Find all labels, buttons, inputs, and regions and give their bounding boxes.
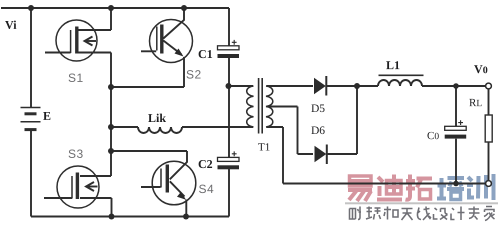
junction battery top rail (28, 5, 34, 11)
inductor Lik coil (138, 127, 182, 133)
wire Lik to transformer primary bottom (182, 126, 253, 128)
L1 coil (378, 80, 422, 86)
S3 channel bar (76, 173, 79, 200)
wire RL to return terminal (488, 142, 490, 180)
D5 cathode bar (325, 76, 327, 96)
transformer primary winding (247, 86, 254, 127)
bottom rail (31, 216, 229, 218)
junction Lik on mid leg (108, 124, 114, 130)
S4 gate bar (160, 169, 162, 188)
junction C1-C2 midpoint to primary (226, 83, 232, 89)
wire top rail to C1 (228, 8, 230, 46)
D6 branch vertical (356, 86, 358, 154)
S1 circle (56, 20, 97, 61)
junction C0 top (453, 83, 459, 89)
wire V0 terminal to RL (488, 89, 490, 115)
char 培 (437, 178, 464, 200)
C2 electrolytic plates (218, 151, 240, 169)
S3 gate lead (44, 197, 72, 199)
char 易 (348, 176, 372, 201)
svg-text:S1: S1 (68, 71, 84, 85)
junction S2 emitter on mid leg (108, 84, 114, 90)
S2 emitter vertical (183, 57, 185, 87)
S2 gate bar (156, 27, 158, 51)
S3 circle (57, 166, 99, 208)
S1 source lead (78, 52, 111, 54)
top rail (1, 7, 229, 9)
char 训 (467, 174, 494, 200)
S3 body arrow (86, 186, 98, 188)
S2 circle (150, 20, 193, 63)
wire C0 top lead (455, 86, 457, 126)
watermark logo 易迪拓培训 (drawn as vector strokes) (348, 174, 494, 201)
svg-text:S3: S3 (68, 147, 84, 161)
S4 collector feed (111, 151, 187, 179)
wire C0 bottom lead (455, 139, 457, 184)
svg-text:T1: T1 (258, 142, 270, 154)
和 (384, 207, 398, 220)
terminal output return (486, 181, 492, 187)
S2 emitter arrowhead (175, 49, 184, 57)
terminal V0 positive output (486, 83, 492, 89)
频 (366, 207, 381, 220)
L1 core bar (379, 74, 424, 76)
S1 gate bar (70, 30, 72, 53)
S3 drain lead (80, 175, 111, 177)
D5 diode triangle (314, 78, 326, 94)
svg-text:E: E (43, 109, 51, 123)
mid leg vertical (S1 source to S3 drain) (110, 53, 112, 177)
S3 gate bar (71, 176, 73, 199)
S3 source lead + down (80, 198, 112, 217)
S2 channel bar (160, 25, 163, 54)
C0 electrolytic plates (445, 120, 467, 138)
C1 to primary tap (228, 85, 253, 87)
transformer secondary winding (266, 86, 273, 127)
char 拓 (406, 175, 433, 200)
bottom output rail (283, 183, 485, 185)
svg-text:S4: S4 (198, 182, 214, 196)
resistor RL body (485, 115, 492, 142)
wire C1 bottom to C2 top (228, 58, 230, 158)
transformer core (259, 78, 263, 134)
secondary bottom tap (267, 127, 284, 184)
S1 body arrow (85, 40, 97, 42)
svg-text:V0: V0 (474, 62, 488, 76)
junction S4 collector on mid leg (108, 148, 114, 154)
junction D5 cathode / D6 branch (354, 83, 360, 89)
svg-text:L1: L1 (386, 58, 400, 72)
S4 emitter arrowhead (177, 192, 186, 200)
S2 emitter diag (163, 41, 181, 55)
计 (451, 207, 465, 221)
battery column top (30, 8, 32, 107)
射 (350, 207, 362, 220)
wire mid leg to Lik (111, 126, 138, 128)
C1 electrolytic plates (218, 40, 240, 58)
线 (417, 207, 431, 221)
S1 gate lead (45, 52, 71, 54)
watermark underline (345, 202, 498, 204)
S4 channel bar (166, 165, 169, 193)
S2 emitter to mid leg (111, 86, 184, 88)
S4 emitter diag (170, 181, 185, 196)
S1 drain lead (78, 29, 111, 31)
S2 collector (163, 8, 184, 39)
secondary top tap to D5 (267, 85, 314, 87)
junction S1 drain on top rail (108, 5, 114, 11)
svg-text:D5: D5 (311, 103, 325, 115)
专 (469, 207, 480, 220)
svg-text:C1: C1 (198, 47, 213, 61)
watermark line2 射频和天线设计专家 (fake glyph strokes) (350, 207, 495, 221)
S4 gate lead (141, 186, 161, 188)
S4 emitter vertical (185, 200, 187, 217)
svg-text:S2: S2 (186, 67, 202, 81)
S1 drain vertical (110, 8, 112, 30)
S4 circle (152, 161, 196, 205)
secondary middle tap (267, 107, 314, 155)
D6 cathode bar (326, 145, 328, 165)
S1 channel bar (75, 27, 78, 54)
设 (434, 208, 448, 220)
char 迪 (377, 175, 402, 200)
家 (484, 207, 495, 221)
battery E plates (21, 107, 41, 109)
天 (402, 209, 413, 221)
junction C0 bottom (453, 181, 459, 187)
L1 out wire (422, 85, 485, 87)
svg-text:D6: D6 (311, 125, 325, 137)
D6 diode triangle (315, 146, 327, 162)
wire C2 bottom to bottom rail (228, 169, 230, 217)
S2 gate lead (141, 50, 156, 52)
svg-text:Vi: Vi (5, 18, 17, 32)
battery column bottom (30, 131, 32, 217)
D6 out wire (327, 153, 357, 155)
D5 out wire (326, 85, 378, 87)
svg-text:C0: C0 (427, 130, 439, 142)
junction S2 collector on top rail (181, 5, 187, 11)
junction S4 emitter on bottom rail (183, 214, 189, 220)
svg-text:C2: C2 (198, 157, 213, 171)
svg-text:Lik: Lik (148, 111, 166, 125)
svg-text:RL: RL (469, 97, 482, 109)
junction S3 source on bottom rail (109, 214, 115, 220)
